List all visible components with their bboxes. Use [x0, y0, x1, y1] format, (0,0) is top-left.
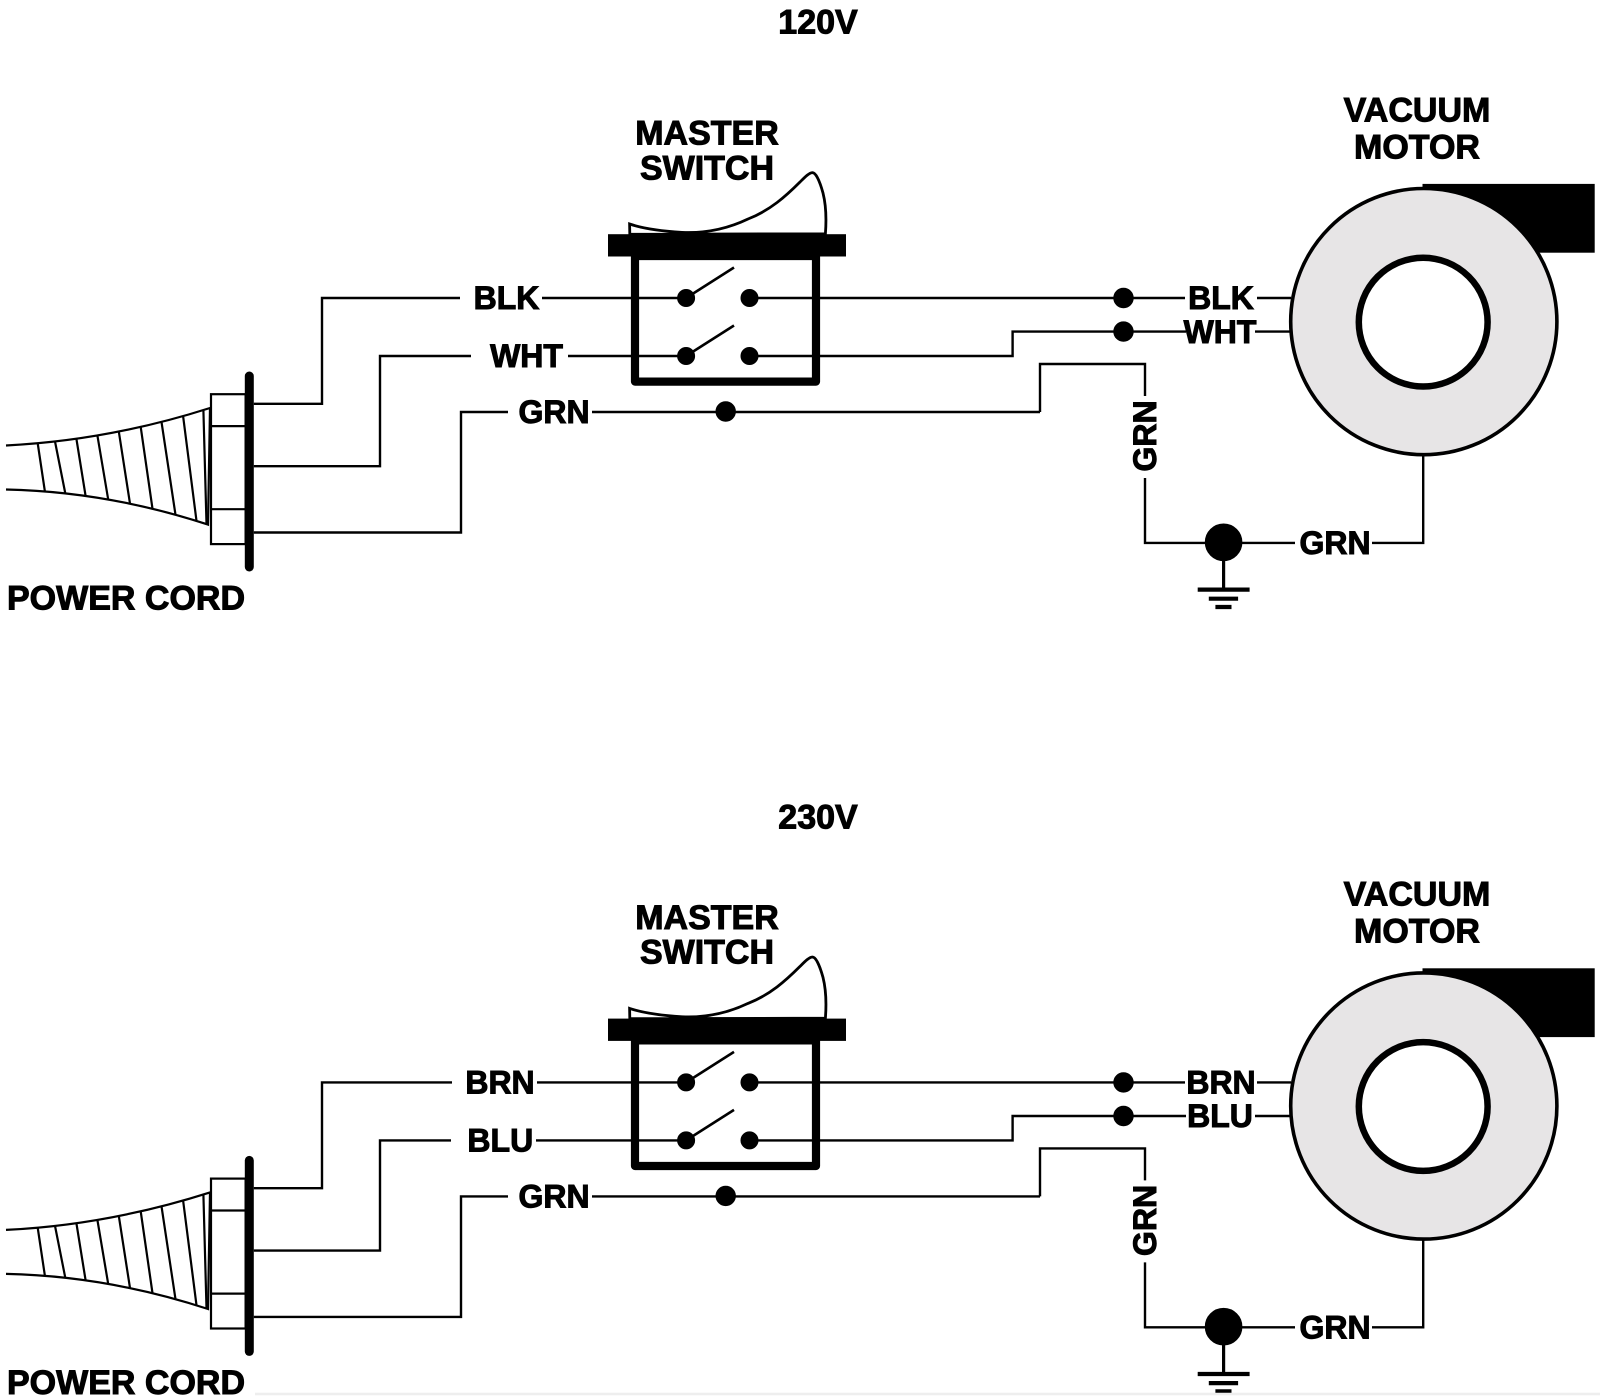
- power cord body divider lines: [211, 426, 246, 509]
- vacuum motor body: [1291, 973, 1557, 1239]
- wire GRN step up and over: [1040, 364, 1145, 412]
- master switch mounting bar: [609, 235, 846, 256]
- ground symbol stem: [1222, 1342, 1225, 1374]
- svg-text:VACUUM: VACUUM: [1344, 876, 1491, 914]
- svg-text:BLK: BLK: [474, 280, 540, 316]
- power cord strain relief cone: [6, 408, 210, 525]
- svg-text:MASTER: MASTER: [635, 114, 779, 152]
- junction dot BLK: [1114, 288, 1133, 307]
- wire BRN into switch: [537, 1081, 686, 1083]
- vacuum motor hub: [1359, 1042, 1488, 1171]
- wire BRN switch to junction: [750, 1081, 1186, 1083]
- wire GRN down to ground row: [1145, 1262, 1205, 1327]
- junction dot BLU: [1114, 1106, 1133, 1125]
- GRN junction dot under switch: [716, 1186, 735, 1205]
- wire BLK into switch: [542, 297, 686, 299]
- wire GRN down to ground row: [1145, 478, 1205, 543]
- wire cord to BLK: [254, 298, 460, 404]
- svg-text:GRN: GRN: [518, 1179, 589, 1215]
- svg-text:VACUUM: VACUUM: [1344, 91, 1491, 129]
- svg-text:GRN: GRN: [1299, 1310, 1370, 1346]
- wire WHT switch step up to junction: [750, 332, 1187, 356]
- svg-text:GRN: GRN: [1127, 1185, 1163, 1256]
- wire GRN under switch: [592, 411, 1040, 413]
- power cord hatch lines: [38, 410, 207, 524]
- wire BLU junction to motor: [1255, 1115, 1290, 1117]
- wire cord to GRN: [254, 412, 508, 533]
- wire cord to BLU: [254, 1140, 451, 1250]
- switch pole 2 left contact: [678, 1132, 695, 1149]
- switch pole 1 left contact: [678, 1074, 695, 1091]
- svg-text:WHT: WHT: [1184, 314, 1257, 350]
- switch pole 2 left contact: [678, 348, 695, 365]
- vacuum motor body: [1291, 189, 1557, 455]
- switch pole 2 blade: [686, 326, 734, 357]
- wire ground dot to GRN label: [1242, 1326, 1295, 1328]
- vacuum motor hub: [1359, 258, 1488, 387]
- power cord hatch lines: [38, 1195, 207, 1309]
- junction dot BRN: [1114, 1073, 1133, 1092]
- wire WHT junction to motor: [1255, 330, 1290, 332]
- svg-text:BLK: BLK: [1188, 280, 1254, 316]
- svg-text:GRN: GRN: [1299, 525, 1370, 561]
- wire cord to BRN: [254, 1082, 452, 1188]
- svg-text:MOTOR: MOTOR: [1354, 128, 1480, 166]
- wire BLK switch to junction: [750, 297, 1186, 299]
- svg-text:BLU: BLU: [1187, 1098, 1253, 1134]
- power cord flange plate: [245, 1160, 254, 1351]
- svg-text:MASTER: MASTER: [635, 899, 779, 937]
- power cord body divider lines: [211, 1211, 246, 1294]
- switch pole 1 right contact: [741, 290, 758, 307]
- wire GRN label to motor: [1372, 455, 1423, 543]
- wire GRN under switch: [592, 1195, 1040, 1197]
- master switch body: [635, 256, 816, 382]
- ground junction dot: [1205, 1308, 1242, 1345]
- wire BLK junction to motor: [1257, 297, 1291, 299]
- wire cord to GRN: [254, 1196, 508, 1317]
- ground junction dot: [1205, 524, 1242, 561]
- switch pole 1 right contact: [741, 1074, 758, 1091]
- switch pole 2 right contact: [741, 348, 758, 365]
- power cord strain relief cone: [6, 1192, 210, 1309]
- wire GRN step up and over: [1040, 1148, 1145, 1196]
- ground symbol bar 1: [1198, 587, 1250, 591]
- ground symbol bar 3: [1215, 605, 1231, 609]
- master switch rocker actuator: [630, 957, 826, 1019]
- svg-text:230V: 230V: [778, 798, 858, 836]
- svg-text:MOTOR: MOTOR: [1354, 913, 1480, 951]
- svg-text:POWER CORD: POWER CORD: [7, 580, 245, 618]
- switch pole 2 blade: [686, 1110, 734, 1141]
- master switch rocker actuator: [630, 173, 826, 235]
- wire cord to WHT: [254, 356, 471, 466]
- vacuum motor exhaust block: [1423, 969, 1594, 1037]
- svg-text:GRN: GRN: [518, 394, 589, 430]
- power cord body block: [211, 394, 246, 544]
- svg-text:120V: 120V: [778, 3, 858, 41]
- switch pole 1 blade: [686, 1052, 734, 1083]
- svg-text:BRN: BRN: [465, 1065, 534, 1101]
- switch pole 1 left contact: [678, 290, 695, 307]
- vacuum motor exhaust block: [1423, 184, 1594, 252]
- ground symbol bar 2: [1209, 1381, 1238, 1385]
- svg-text:SWITCH: SWITCH: [640, 934, 774, 972]
- power cord body block: [211, 1179, 246, 1329]
- wire ground dot to GRN label: [1242, 542, 1295, 544]
- svg-text:BRN: BRN: [1186, 1065, 1255, 1101]
- svg-text:WHT: WHT: [490, 338, 563, 374]
- ground symbol stem: [1222, 558, 1225, 590]
- wire WHT into switch: [568, 355, 686, 357]
- wire GRN label to motor: [1372, 1239, 1423, 1327]
- svg-text:SWITCH: SWITCH: [640, 149, 774, 187]
- svg-text:GRN: GRN: [1127, 400, 1163, 471]
- wire BRN junction to motor: [1257, 1081, 1291, 1083]
- wire BLU into switch: [536, 1139, 686, 1141]
- ground symbol bar 2: [1209, 597, 1238, 601]
- GRN junction dot under switch: [716, 402, 735, 421]
- master switch mounting bar: [609, 1019, 846, 1040]
- switch pole 1 blade: [686, 268, 734, 299]
- power cord flange plate: [245, 376, 254, 567]
- master switch body: [635, 1040, 816, 1166]
- switch pole 2 right contact: [741, 1132, 758, 1149]
- ground symbol bar 1: [1198, 1372, 1250, 1376]
- footer rule: [255, 1393, 1600, 1396]
- svg-text:BLU: BLU: [467, 1123, 533, 1159]
- wire BLU switch step up to junction: [750, 1116, 1187, 1140]
- ground symbol bar 3: [1215, 1389, 1231, 1393]
- junction dot WHT: [1114, 322, 1133, 341]
- svg-text:POWER CORD: POWER CORD: [7, 1364, 245, 1396]
